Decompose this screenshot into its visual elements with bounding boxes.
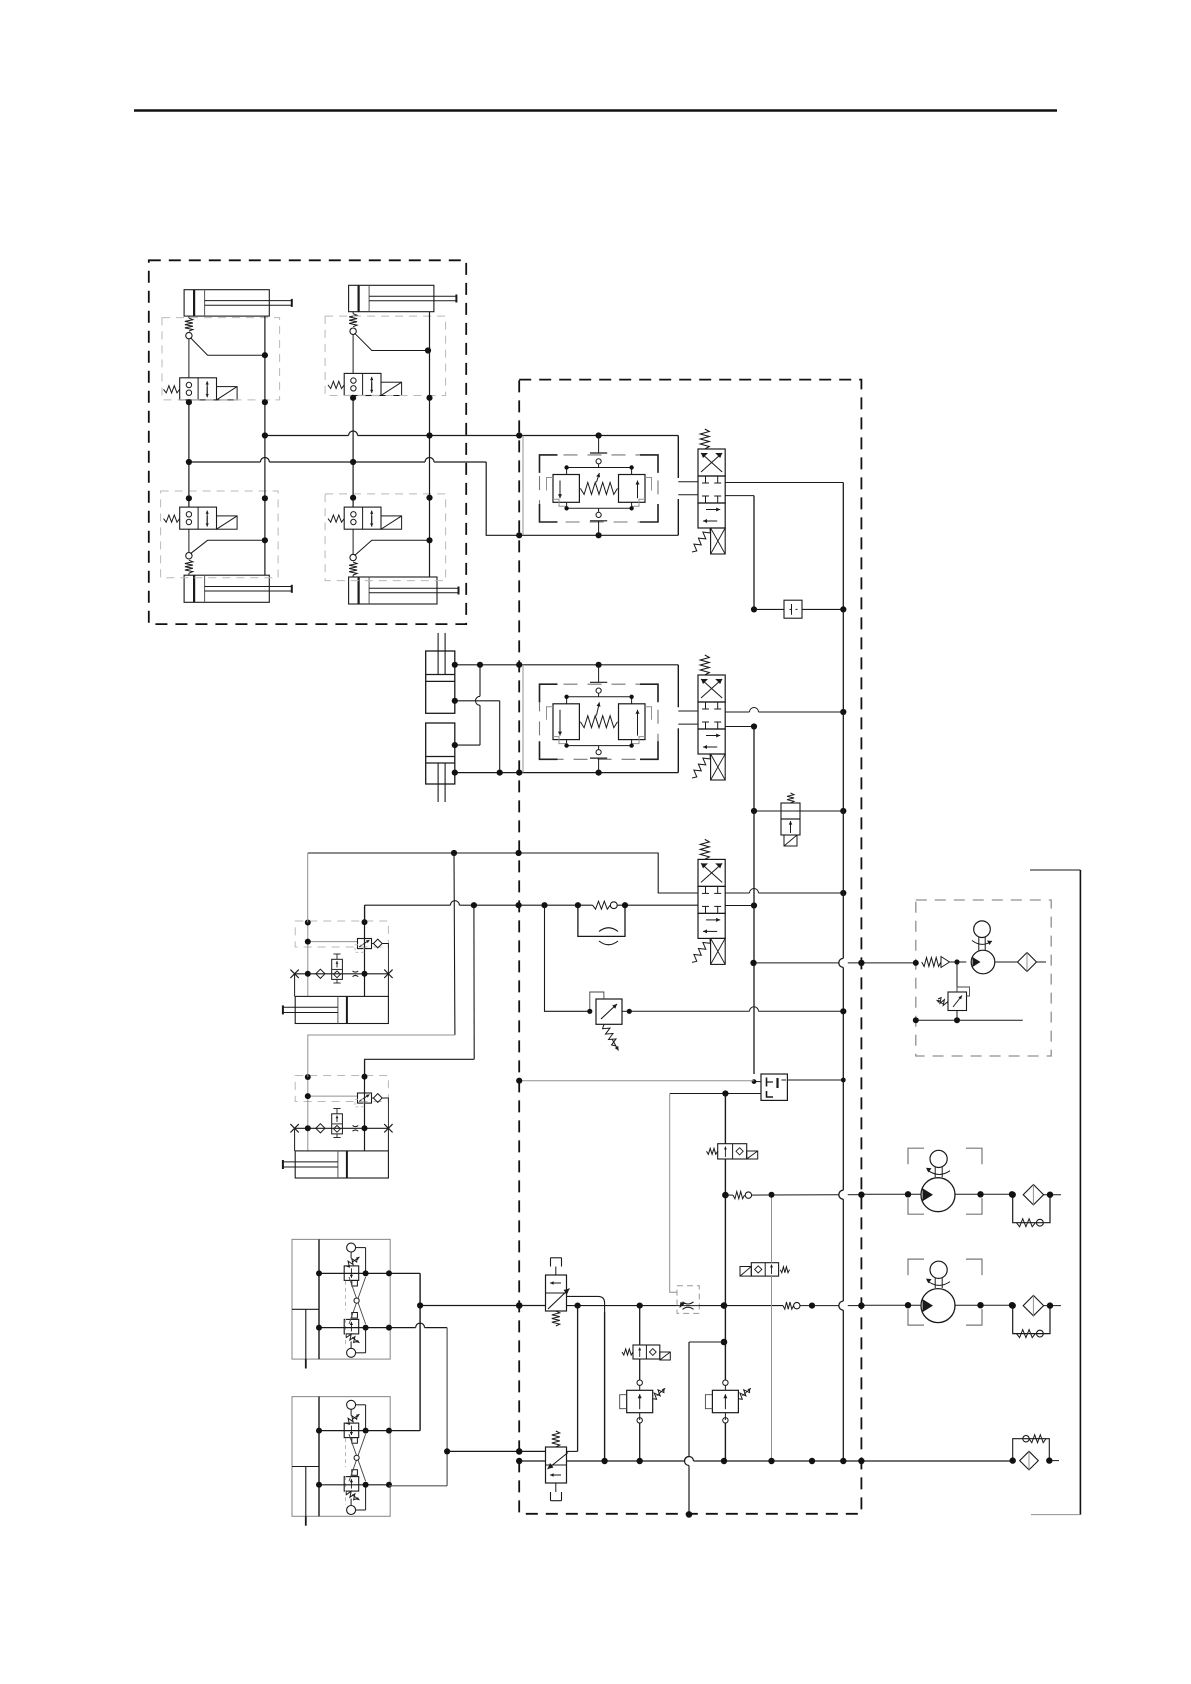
wire B1-bottom over-cross bbox=[389, 1327, 416, 1329]
junction bbox=[858, 1192, 864, 1198]
junction bbox=[516, 432, 522, 438]
junction bbox=[451, 850, 457, 856]
check valve with spring CKP1 bbox=[733, 1192, 745, 1199]
junction bbox=[913, 1017, 919, 1023]
junction bbox=[417, 1302, 423, 1308]
wire CYL1/CYL3 shared riser bbox=[264, 436, 266, 576]
main control valve dashed enclosure (center) bbox=[519, 380, 861, 1514]
junction bbox=[809, 1303, 815, 1309]
wire right header to pump line bbox=[842, 609, 844, 893]
junction bbox=[596, 662, 602, 668]
junction bbox=[541, 902, 547, 908]
orifice plug OR1 bbox=[754, 608, 784, 610]
junction bbox=[426, 432, 432, 438]
junction bbox=[1010, 1457, 1016, 1463]
solenoid valve SV4 bbox=[344, 507, 381, 529]
junction bbox=[350, 395, 356, 401]
wire DV1-A to right header bbox=[725, 482, 843, 484]
swing module M2 cylinder bbox=[295, 1151, 388, 1178]
junction bbox=[622, 902, 628, 908]
junction bbox=[721, 1458, 727, 1464]
junction bbox=[477, 662, 483, 668]
junction bbox=[516, 532, 522, 538]
solenoid valve SV3 bbox=[180, 507, 217, 529]
junction bbox=[587, 1009, 592, 1014]
wire to pump P1 bbox=[752, 1194, 839, 1196]
wire net-S (lower bus to CB1 bottom) bbox=[189, 461, 261, 463]
wire DV3-B stub bbox=[725, 905, 754, 907]
junction bbox=[426, 395, 432, 401]
filter F1 bypass bbox=[1013, 1195, 1050, 1223]
solenoid valve SV1 bbox=[180, 378, 217, 400]
wire VA upper out S-drop bbox=[567, 1296, 605, 1312]
wire to relief RV1 bbox=[545, 905, 590, 1011]
wire feed to valve VB bbox=[447, 1450, 545, 1452]
junction bbox=[637, 1303, 643, 1309]
cylinder CYL6 rod (down) bbox=[437, 763, 439, 802]
junction bbox=[840, 890, 846, 896]
3/2 manual valve VB bbox=[546, 1447, 567, 1483]
junction bbox=[262, 352, 268, 358]
wire SV1 to net-S bbox=[188, 400, 190, 462]
wire net-R (upper bus to CB1 top) bbox=[265, 435, 349, 437]
junction bbox=[497, 770, 503, 776]
junction bbox=[452, 770, 458, 776]
junction bbox=[722, 1090, 728, 1096]
tank symbol VA bbox=[555, 1267, 557, 1276]
wire shuttle out to right header bbox=[787, 1079, 843, 1081]
filter F0 bbox=[1018, 953, 1037, 972]
junction bbox=[426, 537, 432, 543]
wire CYL2/CYL4 shared riser bbox=[429, 436, 431, 578]
pilot solenoid valve PV1 bbox=[754, 810, 781, 812]
junction bbox=[858, 960, 864, 966]
sub-plate dashed box SB1 bbox=[162, 318, 280, 400]
wire net-S to SV4 bbox=[352, 462, 354, 507]
junction bbox=[1046, 1457, 1052, 1463]
wire CYL2 rod-side drop bbox=[429, 312, 431, 436]
counterbalance valve block CB1 bbox=[522, 436, 524, 536]
junction bbox=[858, 1458, 864, 1464]
junction bbox=[769, 1192, 775, 1198]
wire DV2-A to right header bbox=[725, 711, 749, 713]
junction bbox=[840, 1008, 846, 1014]
wire SV2 to net-S bbox=[352, 396, 354, 463]
junction bbox=[262, 537, 268, 543]
wire pump M to filter F0 bbox=[995, 961, 1018, 963]
cylinder CYL3 (rear-left outrigger) bbox=[184, 575, 269, 602]
pilot check valve PC4 bbox=[352, 575, 354, 577]
cylinder CYL2 (front-right outrigger) bbox=[349, 285, 434, 311]
junction bbox=[575, 1303, 581, 1309]
filter F2 bypass bbox=[1013, 1306, 1050, 1334]
junction bbox=[751, 606, 757, 612]
solenoid valve S2 bbox=[751, 1263, 778, 1276]
junction bbox=[840, 1458, 846, 1464]
sub-plate dashed box SB4 bbox=[325, 494, 446, 581]
relief valve RV0 bbox=[956, 962, 958, 992]
wire standby line bbox=[754, 962, 839, 964]
wire LS line (gray) bbox=[519, 1080, 754, 1082]
wire B2-bottom link bbox=[389, 1485, 447, 1487]
wire to pump M bbox=[950, 961, 967, 963]
wire branch to M2 (gray) bbox=[308, 1035, 455, 1077]
junction bbox=[913, 960, 919, 966]
junction bbox=[186, 459, 192, 465]
wire hydraulic pump P2 ports bbox=[861, 1304, 921, 1306]
spring VB bbox=[552, 1431, 560, 1447]
wire port-C link bbox=[455, 744, 480, 746]
brake block B2 bbox=[292, 1397, 390, 1517]
wire branch to drain drop bbox=[689, 1341, 724, 1343]
junction bbox=[516, 1458, 522, 1464]
wire return (power unit) bbox=[916, 1019, 1023, 1021]
junction bbox=[425, 347, 431, 353]
wire RV1 out to right header bbox=[629, 1010, 749, 1012]
wire branch to M2 bbox=[365, 1059, 475, 1077]
wire reservoir frame bbox=[1030, 869, 1080, 871]
tank return bus bbox=[519, 1460, 545, 1462]
cylinder CYL5 upper body bbox=[426, 651, 455, 713]
power unit dashed enclosure (top-right) bbox=[916, 900, 1051, 1056]
junction bbox=[516, 902, 522, 908]
swing module M1 cylinder bbox=[295, 996, 388, 1023]
junction bbox=[858, 1302, 864, 1308]
junction bbox=[840, 606, 846, 612]
wire port-B cross link bbox=[455, 700, 500, 702]
wire pilot drop (gray) bbox=[670, 1094, 677, 1293]
junction bbox=[350, 495, 356, 501]
junction bbox=[596, 770, 602, 776]
filter F1 bbox=[1023, 1185, 1043, 1205]
junction bbox=[722, 1192, 729, 1199]
wire net-Q corner to M1 bbox=[364, 905, 366, 922]
check valve with spring CK0 bbox=[922, 958, 941, 967]
cylinder CYL1 (front-left outrigger) bbox=[184, 290, 269, 316]
wire net-P jog to DV3 bbox=[519, 853, 698, 893]
flow restrictor FR1 bypass bbox=[578, 905, 625, 936]
directional valve DV1 (upper) bbox=[700, 429, 709, 449]
junction bbox=[750, 960, 756, 966]
junction bbox=[840, 709, 846, 715]
wire VB right port bbox=[567, 1450, 578, 1452]
junction bbox=[596, 432, 602, 438]
flow control block FC1 bbox=[677, 1286, 699, 1314]
wire DV1-B drop bbox=[725, 495, 754, 497]
wire riser x=639.7 bbox=[639, 1306, 641, 1345]
wire net-P from outrigger field bbox=[308, 852, 519, 854]
junction bbox=[596, 532, 602, 538]
junction bbox=[516, 850, 522, 856]
junction bbox=[752, 1079, 757, 1084]
swing module M2 bbox=[295, 1076, 388, 1102]
wire F3 out bbox=[1049, 1460, 1059, 1462]
junction bbox=[516, 1078, 522, 1084]
solenoid check valve S4 bbox=[718, 1144, 747, 1159]
hydraulic pump M (hand pump) bbox=[971, 950, 995, 974]
wire port-A to CB2 top bbox=[455, 664, 679, 666]
wire CYL1 rod-side drop bbox=[264, 316, 266, 435]
3/2 manual valve VA bbox=[546, 1275, 567, 1311]
wire FC1 to riser bbox=[699, 1305, 783, 1307]
junction bbox=[840, 808, 846, 814]
wire riser x=725.4 bbox=[724, 1094, 726, 1144]
swing module M1 bbox=[295, 921, 388, 947]
wire net-S to SV3 bbox=[188, 462, 190, 507]
junction bbox=[452, 742, 458, 748]
check valve with spring CKP2 bbox=[783, 1302, 794, 1309]
hydraulic pump P2 bbox=[921, 1289, 955, 1323]
relief valve RV2 bbox=[637, 1380, 642, 1385]
junction bbox=[954, 1017, 960, 1023]
cylinder CYL6 lower body bbox=[426, 723, 455, 784]
junction bbox=[516, 1302, 523, 1309]
wire net-P corner to M1 bbox=[307, 853, 309, 923]
solenoid valve S3 bbox=[633, 1345, 660, 1359]
junction bbox=[516, 662, 522, 668]
directional valve DV2 (middle) bbox=[700, 655, 709, 675]
sub-plate dashed box SB3 bbox=[161, 491, 279, 578]
junction bbox=[262, 399, 268, 405]
wire DV3-A to right header bbox=[725, 892, 749, 894]
relief valve RV3 bbox=[723, 1380, 728, 1385]
cylinder CYL4 (rear-right outrigger) bbox=[349, 577, 437, 604]
junction bbox=[262, 495, 268, 501]
filter F3 (return) bbox=[1020, 1451, 1039, 1470]
counterbalance valve block CB2 bbox=[522, 665, 524, 773]
wire drain drop bbox=[688, 1342, 690, 1457]
junction bbox=[186, 495, 192, 501]
junction bbox=[601, 1458, 607, 1464]
spring VA bbox=[552, 1311, 560, 1326]
junction bbox=[444, 1448, 450, 1454]
junction bbox=[516, 1448, 523, 1455]
pilot check valve PC2 bbox=[352, 312, 354, 314]
brake block B1 bbox=[292, 1239, 390, 1359]
sub-plate dashed box SB2 bbox=[325, 316, 446, 395]
pilot check valve PC1 bbox=[188, 316, 190, 318]
wire hydraulic pump P1 ports bbox=[861, 1193, 921, 1195]
junction bbox=[350, 459, 356, 465]
pilot check valve PC3 bbox=[188, 573, 190, 575]
junction bbox=[721, 1339, 728, 1346]
page top rule bbox=[134, 109, 1057, 112]
junction bbox=[452, 662, 458, 668]
junction bbox=[262, 432, 268, 438]
wire net-Q left reach bbox=[365, 904, 451, 906]
check valve with spring CKF1 bbox=[593, 901, 611, 909]
shuttle valve SH1 bbox=[761, 1074, 787, 1100]
directional valve DV3 (lower) bbox=[700, 839, 709, 859]
wire regen riser bbox=[479, 665, 481, 697]
junction bbox=[751, 723, 757, 729]
wire S2 drop (gray) bbox=[771, 1195, 773, 1263]
wire shuttle LP port bbox=[670, 1093, 761, 1095]
junction bbox=[686, 1511, 693, 1518]
outriggers assembly dashed enclosure (top-left) bbox=[149, 260, 466, 624]
junction bbox=[954, 959, 959, 964]
wire right header drop bbox=[842, 483, 844, 610]
wire B1-top to valve VA bbox=[389, 1272, 420, 1274]
hydraulic pump P2 bracket bbox=[908, 1259, 924, 1275]
solenoid valve SV2 bbox=[344, 373, 381, 395]
junction bbox=[471, 902, 477, 908]
junction bbox=[841, 1078, 846, 1083]
wire net-P branch riser bbox=[453, 853, 456, 1035]
junction bbox=[721, 1302, 728, 1309]
junction bbox=[768, 1458, 774, 1464]
junction bbox=[751, 808, 757, 814]
wire riser to VB bbox=[577, 1306, 579, 1452]
hydraulic pump P1 bracket bbox=[908, 1148, 924, 1164]
junction bbox=[186, 399, 192, 405]
wire feed to valve VA bbox=[420, 1305, 545, 1307]
junction bbox=[637, 1458, 643, 1464]
filter F3 bypass check bbox=[1013, 1439, 1050, 1461]
tank symbol VB bbox=[555, 1483, 557, 1492]
wire net-Q branch riser bbox=[473, 905, 475, 1059]
wire to B2 top bbox=[389, 1430, 420, 1432]
junction bbox=[575, 902, 581, 908]
cylinder CYL5 rod (up) bbox=[437, 633, 439, 675]
junction bbox=[452, 698, 458, 704]
wire VA lower out bbox=[567, 1305, 678, 1307]
junction bbox=[809, 1458, 815, 1464]
wire port-D to CB2 bottom bbox=[455, 772, 679, 774]
junction bbox=[751, 902, 757, 908]
junction bbox=[627, 1009, 632, 1014]
wire DV2-B to center riser bbox=[725, 726, 754, 728]
junction bbox=[516, 770, 522, 776]
wire to pump P2 bbox=[812, 1305, 839, 1307]
hydraulic pump P1 bbox=[921, 1178, 955, 1212]
junction bbox=[426, 495, 432, 501]
wire DV-B riser bbox=[753, 727, 755, 1075]
relief valve RV1 bbox=[596, 999, 622, 1024]
filter F2 bbox=[1023, 1295, 1043, 1315]
